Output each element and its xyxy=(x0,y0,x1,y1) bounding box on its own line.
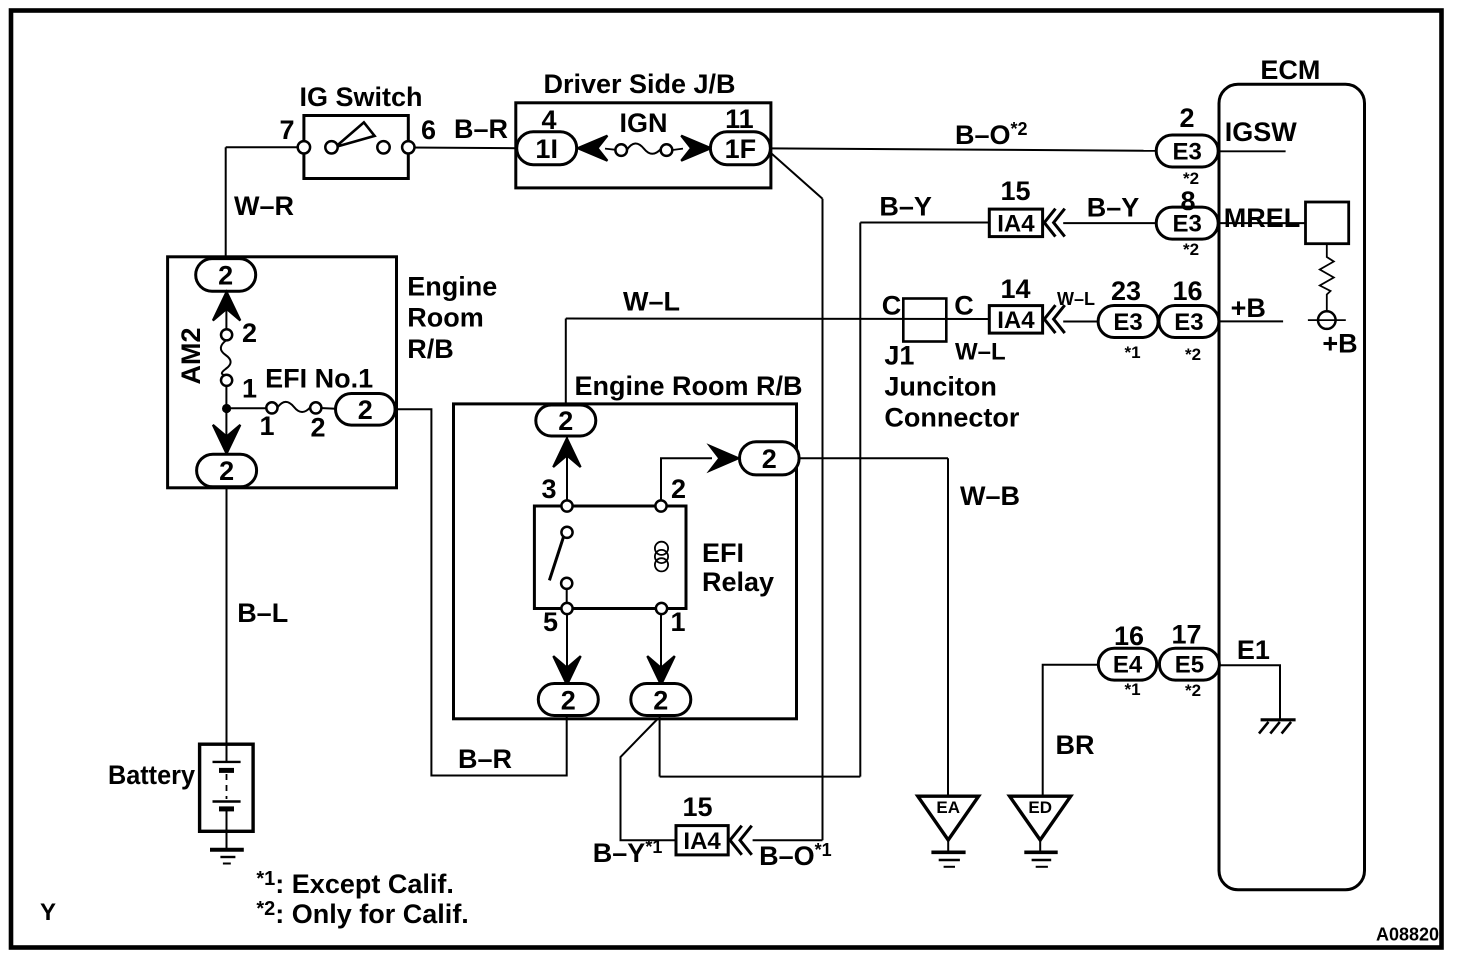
wire E1 from E5 to ground xyxy=(1219,665,1280,719)
svg-text:*1: Except Calif.: *1: Except Calif. xyxy=(256,868,453,899)
svg-text:B–R: B–R xyxy=(454,114,508,144)
Engine Room R/B left box xyxy=(168,257,397,488)
connector oval E3 pin2 xyxy=(1156,135,1218,167)
wire W-L down to engine room RB oval xyxy=(565,319,567,411)
svg-text:Junciton: Junciton xyxy=(884,372,997,402)
arrow right at 1F xyxy=(681,136,711,161)
svg-text:3: 3 xyxy=(541,474,556,504)
svg-text:*2: *2 xyxy=(1183,240,1199,259)
wire relay pin1 down to oval xyxy=(660,609,662,687)
wire BR from E4 to ED ground xyxy=(1043,665,1099,796)
svg-text:2: 2 xyxy=(653,686,668,716)
svg-text:17: 17 xyxy=(1171,620,1201,650)
svg-text:W–L: W–L xyxy=(1057,289,1095,309)
svg-text:Y: Y xyxy=(40,899,56,926)
connector oval 2 EFI No.1 output xyxy=(336,394,396,426)
svg-text:W–B: W–B xyxy=(960,481,1020,511)
svg-text:15: 15 xyxy=(1000,176,1030,206)
svg-text:IG Switch: IG Switch xyxy=(299,82,422,112)
svg-text:EA: EA xyxy=(936,798,960,817)
svg-text:C: C xyxy=(882,291,902,321)
svg-text:2: 2 xyxy=(561,686,576,716)
svg-text:1: 1 xyxy=(259,411,274,441)
svg-text:B–R: B–R xyxy=(458,744,512,774)
ground EA triangle xyxy=(918,796,979,840)
svg-text:2: 2 xyxy=(358,395,373,425)
relay switch contact lower xyxy=(561,578,572,589)
svg-text:W–R: W–R xyxy=(234,191,294,221)
junction node dot xyxy=(222,404,231,413)
ground ED triangle xyxy=(1010,796,1071,840)
connector oval 2 bottom right of middle R/B xyxy=(631,684,691,716)
wire W-L horizontal xyxy=(566,318,990,321)
svg-text:B–Y: B–Y xyxy=(1087,193,1140,223)
connector oval 2 top right of middle R/B xyxy=(740,442,800,475)
battery ground xyxy=(210,848,244,852)
arrow down above bottom-right oval xyxy=(647,656,674,685)
svg-text:A08820: A08820 xyxy=(1376,925,1439,945)
svg-text:Room: Room xyxy=(407,303,484,333)
IG switch lever xyxy=(335,122,374,147)
svg-text:E4: E4 xyxy=(1113,652,1143,679)
svg-text:B–L: B–L xyxy=(237,598,288,628)
svg-text:14: 14 xyxy=(1000,274,1030,304)
svg-text:+B: +B xyxy=(1322,329,1357,359)
svg-text:Driver Side J/B: Driver Side J/B xyxy=(543,69,735,99)
arrow left at 1I xyxy=(578,136,608,161)
svg-text:*2: *2 xyxy=(1185,681,1201,700)
wire B-R path from EFI No.1 oval to relay box oval xyxy=(395,409,567,775)
Battery box xyxy=(200,744,254,831)
svg-text:1F: 1F xyxy=(725,134,757,164)
wire bottom horizontal to B-Y riser xyxy=(660,776,861,778)
svg-text:2: 2 xyxy=(1179,103,1194,133)
connector oval E4 pin16 xyxy=(1098,648,1156,680)
connector oval 2 bottom of left R/B xyxy=(197,454,257,487)
wire W-B vertical to EA ground xyxy=(947,458,949,796)
battery cell plates xyxy=(226,744,228,762)
wire IG switch pin6 to J/B 1I xyxy=(408,147,517,150)
wire relay switch lower contact to pin5 xyxy=(566,583,568,608)
wire relay pin5 down to oval xyxy=(566,609,568,687)
IG switch contact 3 xyxy=(377,141,389,153)
connector oval 2 top of middle R/B xyxy=(536,405,596,436)
svg-text:IA4: IA4 xyxy=(683,828,721,855)
wire B-Y chevrons to E3 pin8 xyxy=(1063,222,1157,224)
arrow down to bottom oval xyxy=(213,425,240,454)
svg-text:E1: E1 xyxy=(1237,635,1270,665)
arrow up to top oval xyxy=(553,438,580,467)
svg-text:*1: *1 xyxy=(1124,343,1140,362)
svg-text:E3: E3 xyxy=(1174,309,1203,336)
svg-text:2: 2 xyxy=(762,444,777,474)
wire relay pin2 up and right to arrow xyxy=(661,458,712,506)
svg-text:*1: *1 xyxy=(1124,680,1140,699)
chevrons at IA4 15 xyxy=(1044,210,1064,236)
wire B-O*1 horizontal to chevrons xyxy=(753,839,823,841)
fuse AM2 xyxy=(221,340,231,375)
wire diagonal from 1F down xyxy=(772,154,823,199)
svg-text:IA4: IA4 xyxy=(997,211,1035,238)
connector IA4 15 bottom xyxy=(676,826,728,855)
chevrons at bottom IA4 xyxy=(730,827,751,854)
svg-text:B–Y: B–Y xyxy=(879,192,932,222)
connector IA4 15 top xyxy=(989,209,1042,237)
wire B-O*2 from 1F to E3 pin2 xyxy=(770,148,1157,150)
wire W-L chevrons to E3 pin23 xyxy=(1063,321,1098,323)
relay coil xyxy=(655,542,668,555)
IG switch contact pin 7 xyxy=(298,141,310,153)
wire B-O*1 vertical xyxy=(822,199,824,840)
IG switch contact pin 6 xyxy=(402,141,414,153)
svg-text:5: 5 xyxy=(543,607,558,637)
svg-text:2: 2 xyxy=(310,412,325,442)
wire MREL stub inside ECM xyxy=(1218,222,1306,224)
relay pin 5 xyxy=(561,603,572,614)
svg-text:E3: E3 xyxy=(1113,309,1142,336)
J1 junction connector box xyxy=(903,299,946,342)
svg-text:11: 11 xyxy=(725,104,754,134)
svg-text:J1: J1 xyxy=(884,341,914,371)
svg-text:IA4: IA4 xyxy=(997,307,1035,334)
svg-text:7: 7 xyxy=(279,115,294,145)
ground E1 chassis xyxy=(1261,718,1296,721)
svg-text:AM2: AM2 xyxy=(176,327,206,384)
wire AM2 to junction to down arrow xyxy=(225,385,227,458)
svg-text:R/B: R/B xyxy=(407,334,454,364)
svg-text:EFI: EFI xyxy=(702,538,744,568)
arrow up into oval xyxy=(213,292,240,321)
svg-text:6: 6 xyxy=(421,115,436,145)
svg-text:2: 2 xyxy=(218,261,233,291)
relay switch lever xyxy=(549,537,563,581)
svg-text:2: 2 xyxy=(242,318,257,348)
wire IG switch pin7 to W-R corner xyxy=(226,146,304,148)
svg-text:4: 4 xyxy=(541,105,556,135)
svg-text:16: 16 xyxy=(1114,621,1144,651)
fuse IGN xyxy=(605,149,616,150)
svg-text:C: C xyxy=(954,291,974,321)
MREL driver square inside ECM xyxy=(1306,202,1349,244)
svg-text:1: 1 xyxy=(242,374,257,404)
svg-text:E3: E3 xyxy=(1173,139,1202,166)
wire relay oval down xyxy=(659,714,661,777)
svg-text:ECM: ECM xyxy=(1260,55,1320,85)
svg-text:Engine Room R/B: Engine Room R/B xyxy=(575,371,803,401)
svg-text:E3: E3 xyxy=(1173,211,1202,238)
wire B-Y top horizontal to IA4 xyxy=(860,222,989,224)
wire diagonal from relay oval to B-Y*1 xyxy=(621,719,677,841)
relay pin 3 xyxy=(561,500,572,511)
svg-text:W–L: W–L xyxy=(955,339,1006,366)
svg-text:Relay: Relay xyxy=(702,567,774,597)
svg-text:Engine: Engine xyxy=(407,272,497,302)
IG Switch box xyxy=(304,116,408,179)
svg-text:2: 2 xyxy=(671,474,686,504)
connector IA4 14 xyxy=(989,306,1042,334)
relay switch contact upper xyxy=(561,527,572,538)
svg-text:1I: 1I xyxy=(535,134,558,164)
relay pin 2 xyxy=(655,500,666,511)
arrow right into top-right oval xyxy=(710,446,739,471)
EFI relay box xyxy=(534,506,686,609)
ECM box xyxy=(1219,84,1365,890)
wire B-Y vertical xyxy=(859,223,861,777)
svg-text:Connector: Connector xyxy=(884,403,1019,433)
svg-text:15: 15 xyxy=(682,792,712,822)
resistor inside ECM xyxy=(1320,244,1334,312)
wire IGSW stub inside ECM xyxy=(1218,150,1286,152)
connector oval 1I xyxy=(517,132,577,165)
wire AM2 branch vertical xyxy=(225,288,227,330)
wire +B stub inside ECM xyxy=(1219,320,1283,322)
svg-text:BR: BR xyxy=(1056,730,1095,760)
svg-text:MREL: MREL xyxy=(1224,203,1301,233)
svg-text:IGSW: IGSW xyxy=(1225,117,1298,147)
wire junction to EFI No.1 fuse xyxy=(226,407,267,409)
wire fuse to oval xyxy=(320,407,336,410)
svg-text:Battery: Battery xyxy=(108,760,195,790)
connector oval E5 pin17 xyxy=(1159,648,1219,680)
svg-text:EFI No.1: EFI No.1 xyxy=(265,364,373,394)
connector oval 1F xyxy=(710,132,770,165)
svg-text:23: 23 xyxy=(1111,276,1141,306)
chevrons at IA4 14 xyxy=(1044,306,1064,332)
svg-text:IGN: IGN xyxy=(619,108,667,138)
relay pin 1 xyxy=(656,603,667,614)
wire W-R into left R/B oval xyxy=(225,257,227,268)
connector oval E3 pin8 xyxy=(1156,207,1218,239)
arrow down above bottom-left oval xyxy=(553,656,580,685)
svg-text:+B: +B xyxy=(1231,293,1266,323)
+B node circle xyxy=(1318,311,1336,329)
wire B-L battery xyxy=(226,487,228,745)
svg-text:W–L: W–L xyxy=(623,287,680,317)
Driver Side J/B box xyxy=(516,103,771,188)
IG switch contact 2 xyxy=(325,141,337,153)
svg-text:16: 16 xyxy=(1172,276,1202,306)
svg-text:1: 1 xyxy=(670,607,685,637)
svg-text:2: 2 xyxy=(219,456,234,486)
connector oval E3 pin23 xyxy=(1098,306,1158,338)
Engine Room R/B middle box xyxy=(454,404,797,719)
svg-text:*2: Only for Calif.: *2: Only for Calif. xyxy=(256,898,468,929)
svg-text:ED: ED xyxy=(1028,798,1052,817)
svg-text:*2: *2 xyxy=(1185,345,1201,364)
wire W-B horizontal xyxy=(798,457,948,459)
wire W-R vertical xyxy=(225,147,227,259)
wire relay pin3 riser xyxy=(566,434,568,506)
connector oval E3 pin16 xyxy=(1159,306,1219,338)
connector oval 2 bottom left of middle R/B xyxy=(538,684,598,716)
fuse EFI No.1 xyxy=(278,402,311,412)
svg-text:2: 2 xyxy=(558,406,573,436)
svg-text:E5: E5 xyxy=(1175,652,1204,679)
connector oval 2 top of left R/B xyxy=(196,259,256,292)
